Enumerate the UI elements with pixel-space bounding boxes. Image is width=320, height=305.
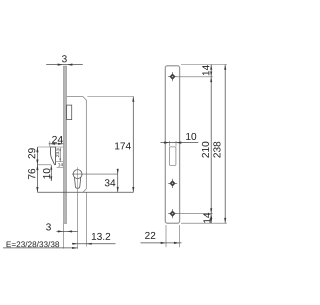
dimension E leader line [3, 247, 78, 249]
dimension 24 line [49, 143, 64, 145]
dimension E arrow [72, 247, 77, 249]
dimension line 14/210/14 shared [210, 65, 212, 224]
follower hub profile [51, 147, 56, 165]
dimension 210 arrows [210, 77, 212, 82]
dimension 13.2 line [72, 243, 116, 245]
dimension 238 label [213, 142, 220, 158]
screw hole top [168, 72, 177, 81]
dimension 10 left top arrow [50, 165, 52, 170]
cylinder axis extension down [77, 191, 79, 249]
dimension 10 left line [50, 165, 52, 181]
faceplate extension down [63, 224, 65, 249]
extension line plate top [181, 64, 227, 66]
dimension 29/76 extension top [37, 146, 63, 148]
dimension 238 arrows [224, 65, 226, 70]
top extension line of case [87, 96, 133, 98]
dimension 22 right arrow [174, 242, 179, 244]
dimension 34 top arrow [117, 169, 119, 174]
dimension 76 label [28, 169, 35, 179]
dimension 22 left arrow [161, 242, 166, 244]
dimension 3 top right arrow [67, 64, 73, 66]
cylinder horizontal centerline / extension to 34 dim [72, 173, 118, 175]
dimension 14 top label [202, 65, 209, 75]
dimension 13.2 left arrow [72, 243, 77, 245]
tiny line under 14 [57, 166, 64, 168]
dimension 29/76 extension middle [37, 164, 51, 166]
dimension 22 label [145, 232, 155, 239]
dimension 10 front left arrow [164, 142, 169, 144]
dimension 29/76 chain line [36, 147, 38, 192]
dimension 34 line [117, 169, 119, 193]
dimension 76 top arrow [36, 165, 38, 170]
tiny dimension 14 label [58, 163, 63, 166]
dimension 14 bottom arrows [210, 214, 212, 219]
screw hole middle [168, 179, 177, 188]
faceplate front view outline [165, 66, 179, 223]
dimension 3 bottom right arrow [67, 230, 72, 232]
dimension 22 line [141, 242, 182, 244]
dimension 174 label [115, 142, 131, 149]
dimension 10 front label [186, 133, 196, 140]
dimension 29 bottom arrow [36, 160, 38, 165]
extension line bottom hole [177, 213, 213, 215]
dimension 3 bottom line [57, 230, 78, 232]
dimension 22 extensions [165, 225, 167, 247]
dimension 3 top label [62, 55, 67, 62]
euro cylinder keyhole circle [73, 170, 82, 179]
tiny line under 23.5 [56, 161, 64, 163]
dimension 10 front line [161, 142, 199, 144]
dimension 24 right arrow [58, 143, 63, 145]
tiny dimension 23.5 top arrow [60, 148, 61, 151]
extension line top hole [177, 76, 213, 78]
dimension E label [7, 241, 60, 247]
dimension 10 left label [43, 168, 50, 178]
latch bolt rectangle (side view) [67, 105, 72, 120]
dimension 10 front extensions [168, 141, 170, 146]
dimension 210 label [202, 142, 209, 158]
tiny dimension 23.5 line [59, 148, 61, 162]
dimension 24 extension [49, 141, 51, 147]
extension line plate bottom [181, 222, 227, 224]
lock case outline (side view) [67, 97, 87, 193]
dimension 29 top arrow [36, 147, 38, 152]
dimension 34 label [105, 179, 116, 186]
dimension 174 line [132, 97, 134, 193]
dimension 3 bottom label [46, 223, 51, 230]
dimension 10 left bottom arrow [50, 176, 52, 181]
dimension 174 top arrow [132, 97, 134, 102]
tiny dimension 23.5 bottom arrow [60, 159, 61, 162]
dimension 238 line [224, 65, 226, 224]
dimension 13.2 right arrow [86, 243, 91, 245]
faceplate side view (grey bar) [63, 66, 66, 224]
dimension 3 top line [46, 64, 83, 66]
dimension 24 label [52, 136, 63, 143]
dimension 14 bottom label [203, 213, 210, 223]
dimension 13.2 label [92, 233, 110, 240]
euro cylinder keyhole slot [74, 177, 80, 188]
tiny dimension 23.5 label [56, 148, 59, 157]
latch cutout front view [170, 147, 176, 166]
dimension 24 left arrow [50, 143, 55, 145]
bottom line of case extended to dimension lines [37, 191, 133, 193]
screw hole bottom [168, 209, 177, 218]
case right edge extension down [85, 192, 87, 246]
dimension 174 bottom arrow [132, 187, 134, 192]
dimension 14 top arrows [210, 65, 212, 70]
cylinder vertical centerline [77, 167, 79, 190]
dimension 34 bottom arrow [117, 187, 119, 192]
dimension 3 bottom left arrow [58, 230, 63, 232]
dimension 29 label [28, 148, 35, 158]
dimension 76 bottom arrow [36, 187, 38, 192]
dimension 3 top left arrow [58, 64, 64, 66]
dimension 10 front right arrow [176, 142, 181, 144]
